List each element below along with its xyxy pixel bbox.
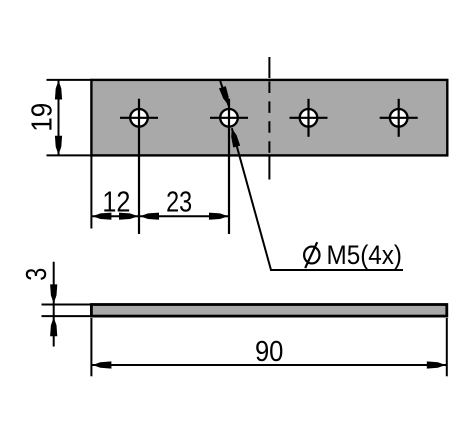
leader line upper segment [220, 81, 228, 106]
dimension 19 extension lines [47, 80, 92, 155]
dimension 90 extension lines [91, 318, 446, 376]
dimension 90 arrow right [427, 361, 446, 368]
hole 4 crosshair [380, 99, 418, 137]
hole 3 crosshair [290, 99, 328, 137]
hole 3 circle [300, 109, 318, 127]
dimension 23 arrow left [140, 213, 159, 220]
side view plate body [91, 305, 446, 317]
hole 2 crosshair [210, 99, 248, 234]
svg-text:12: 12 [102, 187, 130, 219]
hole 2 circle [220, 109, 238, 127]
svg-text:3: 3 [21, 268, 53, 281]
leader arrow lower (points at hole 2 from below) [231, 128, 240, 147]
dimension 3 arrow up (below plate) [50, 317, 57, 336]
label diameter symbol [304, 242, 319, 268]
centerline (dash-dot) of plate [268, 57, 270, 180]
dimension 19 arrow down [55, 136, 62, 155]
dimension 90 arrow left [92, 361, 111, 368]
hole 1 crosshair [120, 99, 158, 234]
leader underline [270, 269, 403, 271]
hole 4 circle [390, 109, 408, 127]
svg-text:19: 19 [26, 103, 58, 132]
dimension 12 arrow right [119, 213, 138, 220]
dimension 19 arrow up [55, 81, 62, 100]
leader line lower segment [232, 128, 271, 270]
dimension 23 arrow right [209, 213, 228, 220]
svg-text:M5(4x): M5(4x) [327, 240, 403, 270]
dimension 3 line [53, 262, 55, 347]
dimension 12 arrow left [92, 213, 111, 220]
dimension 3 extension lines [42, 305, 92, 317]
top view plate body [91, 80, 447, 155]
dimension 3 arrow down (above plate) [50, 284, 57, 303]
dimension 19 line [58, 80, 60, 155]
svg-text:90: 90 [255, 336, 284, 368]
dimension 90 line [91, 364, 446, 366]
svg-text:23: 23 [166, 187, 192, 219]
leader arrow upper (points at hole 2 from above) [219, 86, 229, 105]
dimension 12/23 dimension line [91, 215, 229, 217]
dimension 12 left extension line (plate edge extended) [90, 156, 92, 229]
hole 1 circle [130, 109, 148, 127]
